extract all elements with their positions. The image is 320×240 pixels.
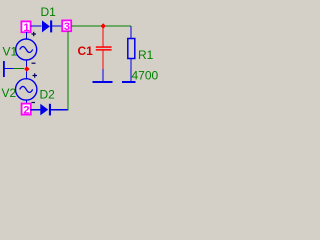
V1 plus mark <box>32 32 37 36</box>
svg-text:C1: C1 <box>78 44 94 58</box>
R1 bottom lead <box>130 59 132 82</box>
svg-text:D2: D2 <box>40 88 56 102</box>
capacitor C1 <box>96 46 112 50</box>
wire node2 to D2 anode <box>31 109 41 111</box>
resistor R1 <box>128 39 135 59</box>
svg-text:D1: D1 <box>41 5 57 19</box>
diode D1 <box>42 20 52 32</box>
source V2 <box>16 79 37 100</box>
wire rail corner down to R1 <box>130 26 132 39</box>
R1 terminal bar <box>122 81 136 83</box>
C1 terminal bar <box>93 81 113 83</box>
svg-text:R1: R1 <box>138 48 154 62</box>
left terminal lead (blue) <box>4 68 14 70</box>
wire junction down to C1 <box>102 28 104 46</box>
wire center tap down to V2 <box>26 72 28 80</box>
wire node3 to R1 corner (top rail) <box>71 25 131 27</box>
junction dot above C1 <box>101 23 106 29</box>
svg-text:3: 3 <box>64 21 70 33</box>
V1 minus mark <box>32 62 36 64</box>
svg-text:V2: V2 <box>2 86 17 100</box>
svg-text:2: 2 <box>23 104 29 116</box>
center tap junction dot <box>24 66 29 72</box>
V2 plus mark <box>33 73 38 77</box>
node 3 <box>62 20 71 32</box>
wire node1 down to V1 <box>26 32 28 40</box>
V2 minus mark <box>32 102 36 104</box>
wire D1 cathode to node3 <box>52 25 62 27</box>
wire V2 down to node2 <box>26 100 28 104</box>
wire V1 down to center tap <box>26 60 28 69</box>
source V1 <box>16 39 37 60</box>
wire D2 cathode to riser <box>51 109 69 111</box>
node 2 <box>22 104 31 117</box>
C1 bottom lead (blue portion) <box>102 69 104 82</box>
wire node1 to D1 anode <box>31 25 42 27</box>
left terminal bar <box>3 61 5 77</box>
riser wire up to node3 <box>67 31 69 110</box>
node 1 <box>21 21 30 33</box>
C1 bottom lead (red portion) <box>102 50 104 69</box>
svg-text:4700: 4700 <box>132 69 159 83</box>
diode D2 <box>40 104 51 116</box>
center tap wire (green) <box>14 68 25 70</box>
